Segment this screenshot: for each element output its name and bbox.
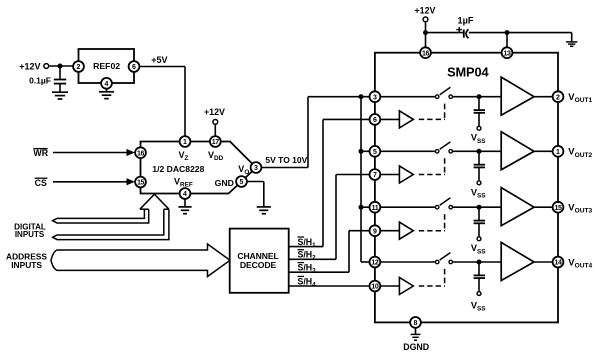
svg-text:INPUTS: INPUTS <box>15 230 45 239</box>
svg-text:9: 9 <box>373 228 377 235</box>
svg-text:17: 17 <box>212 139 219 146</box>
svg-text:SMP04: SMP04 <box>447 65 489 80</box>
svg-text:1µF: 1µF <box>458 15 474 25</box>
svg-text:2: 2 <box>556 94 560 101</box>
svg-text:+12V: +12V <box>415 6 436 16</box>
svg-text:0.1µF: 0.1µF <box>29 75 51 85</box>
svg-text:15: 15 <box>555 205 562 212</box>
svg-text:16: 16 <box>422 50 429 57</box>
svg-text:+12V: +12V <box>19 61 40 71</box>
svg-text:14: 14 <box>555 260 562 267</box>
svg-text:11: 11 <box>372 205 379 212</box>
svg-text:+5V: +5V <box>151 55 167 65</box>
svg-text:+12V: +12V <box>204 107 225 117</box>
svg-text:5: 5 <box>373 149 377 156</box>
svg-text:6: 6 <box>132 64 136 71</box>
svg-text:DGND: DGND <box>403 342 429 352</box>
svg-text:5V TO 10V: 5V TO 10V <box>265 155 307 165</box>
svg-text:13: 13 <box>504 50 511 57</box>
svg-text:CS: CS <box>35 178 47 188</box>
svg-text:2: 2 <box>77 64 81 71</box>
svg-text:DECODE: DECODE <box>240 260 277 270</box>
svg-text:7: 7 <box>373 172 377 179</box>
svg-text:1/2 DAC8228: 1/2 DAC8228 <box>152 164 204 174</box>
svg-text:8: 8 <box>414 320 418 327</box>
svg-text:3: 3 <box>373 94 377 101</box>
svg-text:4: 4 <box>183 191 187 198</box>
svg-text:INPUTS: INPUTS <box>11 260 42 270</box>
svg-text:1: 1 <box>183 139 187 146</box>
svg-text:10: 10 <box>371 284 378 291</box>
svg-text:5: 5 <box>240 179 244 186</box>
svg-text:12: 12 <box>371 260 378 267</box>
svg-text:1: 1 <box>556 149 560 156</box>
svg-text:4: 4 <box>105 81 109 88</box>
svg-text:15: 15 <box>137 180 144 187</box>
svg-text:6: 6 <box>373 117 377 124</box>
svg-text:GND: GND <box>215 178 234 188</box>
svg-text:3: 3 <box>254 165 258 172</box>
svg-text:16: 16 <box>137 150 144 157</box>
svg-text:WR: WR <box>33 148 48 158</box>
svg-text:REF02: REF02 <box>93 61 120 71</box>
